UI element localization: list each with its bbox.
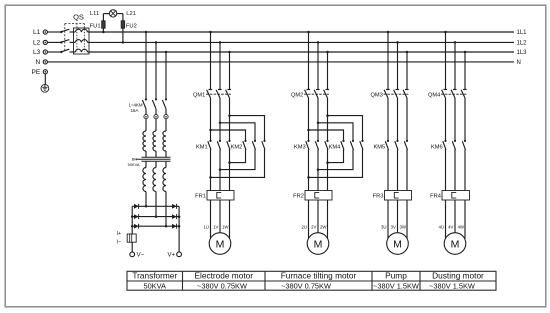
junction feeder split <box>307 129 310 132</box>
junction rectifier phase 3 <box>165 225 168 228</box>
label KM4 <box>329 145 341 151</box>
contactor KM4 contact 3 <box>360 140 364 150</box>
label 16A <box>131 108 139 113</box>
wire feeder to KM4 <box>318 123 353 141</box>
svg-text:50KVA: 50KVA <box>128 162 140 167</box>
svg-text:FU2: FU2 <box>126 23 137 29</box>
svg-text:M: M <box>451 238 460 250</box>
svg-text:L1: L1 <box>33 29 41 36</box>
wire rectifier positive bus <box>178 206 180 252</box>
junction negative bus row2 <box>131 215 134 218</box>
wire KM3 output 2 <box>317 149 319 190</box>
junction QM1 tap phase 1 <box>209 31 212 34</box>
svg-text:BK: BK <box>132 156 138 161</box>
breaker QM1 pole 2 <box>216 90 222 99</box>
wire QM1 output to KM2 feeder <box>219 98 221 141</box>
wire to primary pole 3 <box>165 119 167 131</box>
svg-text:4U: 4U <box>438 225 444 230</box>
switch QS linkage (dashed) <box>65 24 85 53</box>
pin 4U <box>438 225 444 230</box>
svg-text:1L3: 1L3 <box>517 50 528 56</box>
node 1L2 label <box>517 41 528 47</box>
fuse FU2 <box>121 14 124 43</box>
svg-text:I+: I+ <box>117 231 121 237</box>
thermal relay FR2 <box>305 191 332 201</box>
terminal L2 <box>43 40 47 44</box>
junction feeder split <box>209 129 212 132</box>
svg-text:1V: 1V <box>213 225 218 230</box>
node L1 label <box>33 29 41 36</box>
shunt RS <box>127 234 136 242</box>
junction crossover <box>317 168 320 171</box>
wire KM5 output 1 <box>387 149 389 190</box>
pin 2U <box>301 225 307 230</box>
label table header Transformer <box>132 271 177 281</box>
wire QM1 drop phase 1 <box>210 32 212 90</box>
wire rectifier row 1 <box>132 205 179 207</box>
pin 1V <box>213 225 218 230</box>
svg-text:Transformer: Transformer <box>132 271 177 281</box>
terminal V- <box>130 252 135 257</box>
contactor KM2 contact 1 <box>243 140 247 150</box>
switch 1-4KM pole 3 <box>162 98 167 114</box>
label FR2 <box>293 194 304 200</box>
svg-text:3W: 3W <box>399 225 406 230</box>
motor M2 <box>307 233 329 255</box>
label QM2 <box>291 93 303 99</box>
svg-text:M: M <box>216 238 225 250</box>
wire KM6 output 1 <box>445 149 447 190</box>
wire FR4 to motor terminal 4U <box>445 200 447 239</box>
svg-text:KM1: KM1 <box>196 145 208 151</box>
junction transformer tap phase 3 <box>165 51 168 54</box>
junction feeder split <box>317 122 320 125</box>
svg-text:L21: L21 <box>126 11 136 17</box>
wire QM4 drop phase 1 <box>445 32 447 90</box>
breaker QS box <box>74 28 90 54</box>
wire feeder to KM2 <box>211 130 246 141</box>
breaker QM2 linkage (dashed) <box>304 93 329 95</box>
junction QM1 tap phase 2 <box>219 41 222 44</box>
wire QM2 output to KM4 feeder <box>308 98 310 141</box>
svg-text:3U: 3U <box>381 225 387 230</box>
breaker QM3 linkage (dashed) <box>384 93 409 95</box>
junction positive bus row3 <box>178 225 181 228</box>
node N label <box>517 60 521 66</box>
svg-text:L11: L11 <box>90 11 99 17</box>
junction crossover <box>209 176 212 179</box>
svg-text:1~4KM: 1~4KM <box>129 102 143 107</box>
diode V1 <box>134 204 139 209</box>
wire FR1 to motor terminal 1W <box>229 200 231 239</box>
breaker QM4 pole 3 <box>461 90 467 99</box>
diode V2 <box>172 204 177 209</box>
junction QM2 tap phase 3 <box>326 51 329 54</box>
wire QM2 drop phase 1 <box>308 32 310 90</box>
wire bus L3/1L3 <box>88 51 515 53</box>
label BK <box>132 156 138 161</box>
svg-text:2W: 2W <box>320 225 327 230</box>
label L21 <box>126 11 136 17</box>
label KM6 <box>431 145 443 151</box>
transformer BK secondary winding 1 <box>143 161 146 191</box>
pin 1U <box>203 225 209 230</box>
breaker QM1 pole 1 <box>207 90 213 99</box>
svg-text:1U: 1U <box>203 225 209 230</box>
label FU2 <box>126 23 137 29</box>
label table header Electrode motor <box>194 271 253 281</box>
junction QM3 tap phase 1 <box>387 31 390 34</box>
wire QM3 drop phase 2 <box>397 42 399 89</box>
transformer BK primary winding 3 <box>163 131 166 157</box>
label I- <box>117 239 121 245</box>
breaker QM4 pole 2 <box>451 90 457 99</box>
wire KM2 crossover <box>211 149 265 177</box>
label KM5 <box>373 145 385 151</box>
junction QM2 tap phase 1 <box>307 31 310 34</box>
svg-text:~380V 1.5KW: ~380V 1.5KW <box>373 281 419 290</box>
wire KM2 crossover <box>230 149 246 162</box>
svg-text:N: N <box>517 60 521 66</box>
svg-text:L3: L3 <box>33 49 41 56</box>
label V+ <box>167 253 175 259</box>
junction feeder split <box>228 114 231 117</box>
fuse link pole 1 <box>144 115 148 119</box>
wire KM5 output 2 <box>397 149 399 190</box>
svg-text:QM2: QM2 <box>291 93 303 99</box>
svg-text:QM3: QM3 <box>370 93 382 99</box>
junction QM1 tap phase 3 <box>228 51 231 54</box>
contactor KM6 contact 2 <box>452 140 456 150</box>
terminal V+ <box>177 252 182 257</box>
wire QM4 output 1 <box>445 98 447 141</box>
motor M4 <box>444 233 466 255</box>
node 1L3 label <box>517 50 528 56</box>
wire FR3 to motor terminal 3V <box>397 200 399 233</box>
fuse FU1 <box>102 14 105 32</box>
wire FR4 to motor terminal 4V <box>454 200 456 233</box>
wire QM4 output 3 <box>464 98 466 141</box>
label QS <box>73 13 84 22</box>
wire QM3 output 3 <box>406 98 408 141</box>
wire bus N <box>47 61 514 63</box>
pin 3W <box>399 225 406 230</box>
wire KM3 output 1 <box>308 149 310 190</box>
diode V4 <box>172 214 177 219</box>
motor M3 <box>387 233 409 255</box>
breaker QM3 pole 3 <box>403 90 409 99</box>
svg-text:2V: 2V <box>311 225 316 230</box>
label table header Dusting motor <box>432 271 484 281</box>
wire FR2 to motor terminal 2U <box>308 200 310 239</box>
wire L1 into QS <box>47 31 61 33</box>
label table header Pump <box>385 271 407 281</box>
wire rectifier row 3 <box>132 225 179 227</box>
svg-text:PE: PE <box>32 69 41 76</box>
value label ~380V 0.75KW (Electrode motor) <box>197 281 247 290</box>
pin 2W <box>320 225 327 230</box>
wire QM2 output to KM4 feeder <box>317 98 319 141</box>
svg-text:3V: 3V <box>391 225 396 230</box>
contactor KM3 contact 2 <box>315 140 319 150</box>
diode V3 <box>134 214 139 219</box>
svg-text:~380V 0.75KW: ~380V 0.75KW <box>197 281 247 290</box>
label FR4 <box>430 194 441 200</box>
svg-text:N: N <box>35 59 40 66</box>
svg-text:QS: QS <box>73 13 84 22</box>
fuse link pole 2 <box>154 115 158 119</box>
wire L2 into QS <box>47 41 61 43</box>
label FR1 <box>195 194 206 200</box>
junction crossover <box>326 161 329 164</box>
ground (PE earth symbol) <box>41 84 49 92</box>
svg-text:1W: 1W <box>222 225 229 230</box>
wire FR4 to motor terminal 4W <box>464 200 466 239</box>
wire FR1 to motor terminal 1V <box>219 200 221 233</box>
pin 3V <box>391 225 396 230</box>
wire QM2 output to KM4 feeder <box>327 98 329 141</box>
wire FR3 to motor terminal 3U <box>387 200 389 239</box>
junction QM4 tap phase 2 <box>454 41 457 44</box>
junction crossover <box>307 176 310 179</box>
wire QM3 drop phase 1 <box>387 32 389 90</box>
label KM3 <box>294 145 306 151</box>
label 1~4KM <box>129 102 143 107</box>
thermal relay FR3 <box>385 191 412 201</box>
contactor KM4 contact 1 <box>341 140 345 150</box>
breaker QM4 linkage (dashed) <box>441 93 467 95</box>
svg-text:M: M <box>393 238 402 250</box>
junction QM3 tap phase 2 <box>396 41 399 44</box>
svg-text:FR1: FR1 <box>195 194 206 200</box>
thermal relay FR4 <box>442 191 470 201</box>
breaker QS thermal element pole 1 <box>74 29 88 32</box>
contactor KM5 contact 1 <box>385 140 389 150</box>
pin 1W <box>222 225 229 230</box>
label QM1 <box>193 93 205 99</box>
label I+ <box>117 231 121 237</box>
junction FU1 on L1 <box>102 31 105 34</box>
breaker QM1 linkage (dashed) <box>206 93 231 95</box>
transformer BK primary winding 2 <box>153 131 156 157</box>
wire QM3 output 2 <box>397 98 399 141</box>
wire QM4 drop phase 3 <box>464 52 466 90</box>
junction rectifier phase 1 <box>145 205 148 208</box>
contactor KM2 contact 2 <box>252 140 256 150</box>
breaker QM2 pole 2 <box>314 90 320 99</box>
label FR3 <box>373 194 384 200</box>
wire KM1 output 2 <box>219 149 221 190</box>
transformer BK primary winding 1 <box>143 131 146 157</box>
wire lamp top <box>103 13 123 15</box>
contactor KM1 contact 3 <box>227 140 231 150</box>
wire QM4 drop phase 2 <box>454 42 456 89</box>
terminal L1 <box>43 30 47 34</box>
wire PE drop to earth <box>44 74 46 84</box>
diode V6 <box>172 224 177 229</box>
contactor KM5 contact 2 <box>395 140 399 150</box>
svg-text:KM5: KM5 <box>373 145 385 151</box>
junction QM3 tap phase 3 <box>406 51 409 54</box>
wire KM1 output 3 <box>229 149 231 190</box>
terminal L3 <box>43 50 47 54</box>
wire QM4 output 2 <box>454 98 456 141</box>
label V- <box>137 253 145 259</box>
wire KM6 output 2 <box>454 149 456 190</box>
svg-text:Furnace tilting motor: Furnace tilting motor <box>281 271 357 281</box>
svg-text:FU1: FU1 <box>90 23 101 29</box>
node 1L1 label <box>517 30 528 36</box>
contactor KM6 contact 3 <box>462 140 466 150</box>
contactor KM1 contact 2 <box>217 140 221 150</box>
junction positive bus row2 <box>178 215 181 218</box>
thermal relay FR1 <box>207 191 234 201</box>
junction transformer tap phase 1 <box>145 31 148 34</box>
svg-text:Electrode motor: Electrode motor <box>194 271 253 281</box>
wire KM5 output 3 <box>406 149 408 190</box>
svg-text:FR2: FR2 <box>293 194 304 200</box>
breaker QM3 pole 2 <box>394 90 400 99</box>
wire KM6 output 3 <box>464 149 466 190</box>
wire feeder to KM2 <box>230 116 265 141</box>
wire L3 into QS <box>47 51 61 53</box>
node N label <box>35 59 40 66</box>
wire FR2 to motor terminal 2W <box>327 200 329 239</box>
contactor KM1 contact 1 <box>208 140 212 150</box>
wire KM2 crossover <box>220 149 255 169</box>
breaker QS thermal element pole 2 <box>74 40 88 43</box>
wire secondary 1 to rectifier <box>145 192 147 207</box>
wire KM3 output 3 <box>327 149 329 190</box>
terminal PE <box>43 70 47 74</box>
wire KM4 crossover <box>328 149 344 162</box>
label table header Furnace tilting motor <box>281 271 357 281</box>
wire FR3 to motor terminal 3W <box>406 200 408 239</box>
wire QM1 output to KM2 feeder <box>210 98 212 141</box>
switch 1-4KM pole 1 <box>142 98 147 114</box>
node L3 label <box>33 49 41 56</box>
pin 4W <box>457 225 464 230</box>
label QM4 <box>428 93 440 99</box>
wire QM1 drop phase 2 <box>219 42 221 89</box>
svg-text:2U: 2U <box>301 225 307 230</box>
wire to primary pole 1 <box>145 119 147 131</box>
svg-text:I−: I− <box>117 239 121 245</box>
switch QS blade pole 2 <box>60 40 73 44</box>
value label ~380V 1.5KW (Pump) <box>373 281 419 290</box>
contactor KM6 contact 1 <box>443 140 447 150</box>
wire QM3 output 1 <box>387 98 389 141</box>
breaker QM3 pole 1 <box>384 90 390 99</box>
svg-text:V−: V− <box>137 253 145 259</box>
svg-text:L2: L2 <box>33 40 41 47</box>
contactor KM5 contact 3 <box>404 140 408 150</box>
contactor KM3 contact 3 <box>325 140 329 150</box>
wire FR2 to motor terminal 2V <box>317 200 319 233</box>
wire transformer drop phase 1 <box>145 32 147 99</box>
svg-text:~380V 0.75KW: ~380V 0.75KW <box>281 281 331 290</box>
value label ~380V 1.5KW (Dusting motor) <box>429 281 475 290</box>
label FU1 <box>90 23 101 29</box>
junction crossover <box>219 168 222 171</box>
wire KM4 crossover <box>309 149 363 177</box>
breaker QS thermal element pole 3 <box>74 49 88 52</box>
svg-text:KM4: KM4 <box>329 145 341 151</box>
table frame <box>127 271 496 290</box>
breaker QM4 pole 1 <box>442 90 448 99</box>
junction crossover <box>228 161 231 164</box>
wire bus L2/1L2 <box>88 41 515 43</box>
wire feeder to KM2 <box>220 123 255 141</box>
wire feeder to KM4 <box>309 130 344 141</box>
transformer BK secondary winding 3 <box>163 161 166 191</box>
node PE label <box>32 69 41 76</box>
transformer BK secondary winding 2 <box>153 161 156 191</box>
junction QM4 tap phase 1 <box>444 31 447 34</box>
wire KM1 output 1 <box>210 149 212 190</box>
label KM2 <box>231 145 243 151</box>
wire transformer drop phase 3 <box>165 52 167 99</box>
svg-text:4V: 4V <box>448 225 453 230</box>
svg-text:1L1: 1L1 <box>517 30 528 36</box>
junction FU2 on L2 <box>122 41 125 44</box>
junction feeder split <box>219 122 222 125</box>
svg-text:KM3: KM3 <box>294 145 306 151</box>
motor M1 <box>209 233 231 255</box>
value label 50KVA (Transformer) <box>143 281 166 290</box>
svg-text:QM4: QM4 <box>428 93 440 99</box>
svg-text:KM2: KM2 <box>231 145 243 151</box>
wire rectifier negative bus <box>131 206 133 252</box>
junction QM2 tap phase 2 <box>317 41 320 44</box>
wire QM2 drop phase 2 <box>317 42 319 89</box>
wire rectifier row 2 <box>132 216 179 218</box>
junction rectifier phase 2 <box>155 215 158 218</box>
svg-text:~380V 1.5KW: ~380V 1.5KW <box>429 281 475 290</box>
junction negative bus row3 <box>131 225 134 228</box>
svg-text:V+: V+ <box>167 253 175 259</box>
breaker QM2 pole 3 <box>324 90 330 99</box>
lamp HL indicator <box>109 10 116 17</box>
svg-text:M: M <box>314 238 323 250</box>
wire secondary 3 to rectifier <box>165 192 167 227</box>
label KM1 <box>196 145 208 151</box>
svg-text:Pump: Pump <box>385 271 407 281</box>
svg-text:16A: 16A <box>131 108 139 113</box>
svg-text:QM1: QM1 <box>193 93 205 99</box>
pin 2V <box>311 225 316 230</box>
wire KM4 crossover <box>318 149 353 169</box>
transformer BK core <box>136 157 171 161</box>
diode V5 <box>134 224 139 229</box>
switch 1-4KM pole 2 <box>152 98 157 114</box>
svg-text:KM6: KM6 <box>431 145 443 151</box>
svg-text:50KVA: 50KVA <box>143 281 166 290</box>
label 50KVA <box>128 162 140 167</box>
wire FR1 to motor terminal 1U <box>210 200 212 239</box>
wire transformer drop phase 2 <box>155 42 157 99</box>
wire bus L1/1L1 <box>88 31 515 33</box>
junction transformer tap phase 2 <box>155 41 158 44</box>
junction QM4 tap phase 3 <box>464 51 467 54</box>
terminal N <box>43 60 47 64</box>
label L11 <box>90 11 99 17</box>
wire QM2 drop phase 3 <box>327 52 329 90</box>
fuse link pole 3 <box>164 115 168 119</box>
wire to primary pole 2 <box>155 119 157 131</box>
breaker QM1 pole 3 <box>226 90 232 99</box>
breaker QM2 pole 1 <box>305 90 311 99</box>
